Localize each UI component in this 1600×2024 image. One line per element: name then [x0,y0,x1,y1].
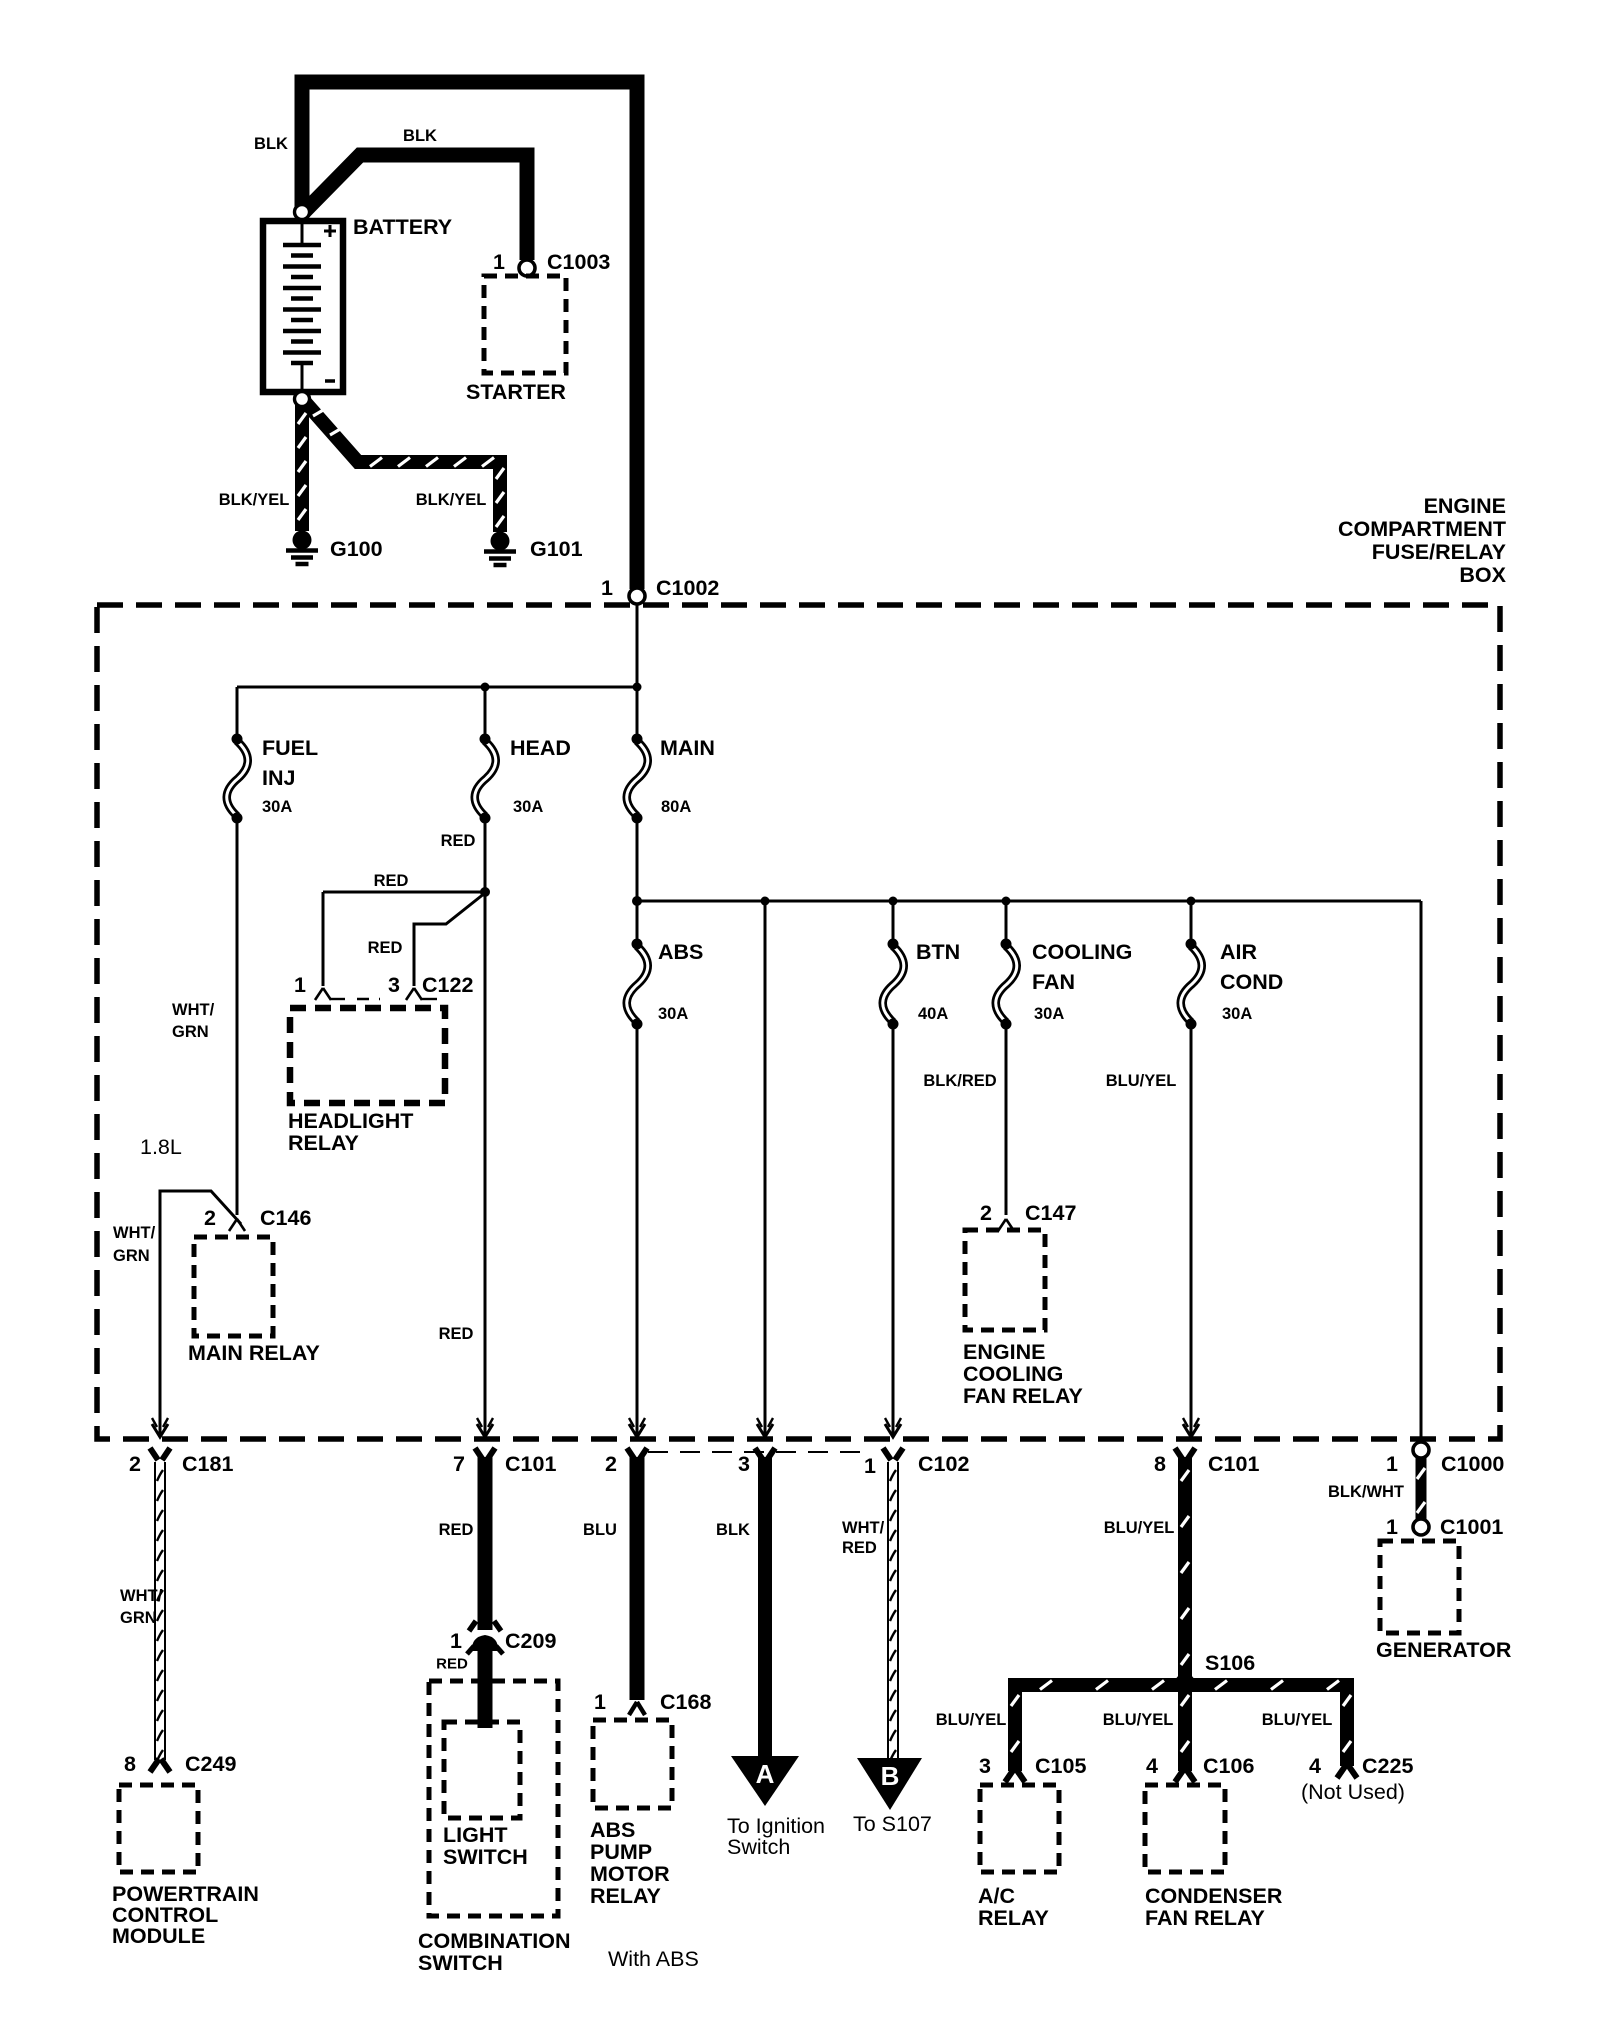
svg-text:WHT/: WHT/ [113,1224,156,1242]
svg-text:1: 1 [294,973,306,997]
svg-text:BLU/YEL: BLU/YEL [1104,1519,1175,1537]
svg-text:BLK: BLK [716,1521,750,1539]
svg-text:SWITCH: SWITCH [443,1845,528,1869]
svg-text:BLU/YEL: BLU/YEL [1103,1711,1174,1729]
svg-text:30A: 30A [262,798,292,816]
svg-text:(Not Used): (Not Used) [1301,1780,1405,1804]
svg-text:RELAY: RELAY [288,1131,359,1155]
svg-text:C101: C101 [505,1452,556,1476]
svg-text:G100: G100 [330,537,383,561]
svg-text:COMPARTMENT: COMPARTMENT [1338,517,1506,541]
svg-text:ENGINE: ENGINE [963,1340,1045,1364]
svg-text:RED: RED [439,1521,474,1539]
svg-text:BLK/WHT: BLK/WHT [1328,1483,1404,1501]
svg-text:RED: RED [368,939,403,957]
svg-text:To S107: To S107 [853,1812,932,1836]
svg-text:4: 4 [1309,1754,1321,1778]
svg-text:RELAY: RELAY [590,1884,661,1908]
svg-text:COOLING: COOLING [1032,940,1132,964]
svg-text:BLK/RED: BLK/RED [923,1072,996,1090]
svg-text:COOLING: COOLING [963,1362,1063,1386]
svg-text:3: 3 [388,973,400,997]
svg-text:MAIN: MAIN [660,736,715,760]
svg-text:GENERATOR: GENERATOR [1376,1638,1512,1662]
svg-text:BLK/YEL: BLK/YEL [416,491,487,509]
svg-text:RELAY: RELAY [978,1906,1049,1930]
svg-text:RED: RED [374,872,409,890]
svg-text:30A: 30A [513,798,543,816]
svg-text:S106: S106 [1205,1651,1255,1675]
svg-text:C1003: C1003 [547,250,610,274]
svg-text:ABS: ABS [658,940,703,964]
svg-text:1: 1 [493,250,505,274]
svg-text:ABS: ABS [590,1818,635,1842]
svg-text:4: 4 [1146,1754,1158,1778]
svg-text:A/C: A/C [978,1884,1015,1908]
svg-text:40A: 40A [918,1005,948,1023]
svg-text:BLK: BLK [403,127,437,145]
svg-text:RED: RED [441,832,476,850]
svg-text:RED: RED [439,1325,474,1343]
svg-text:BLU/YEL: BLU/YEL [1262,1711,1333,1729]
svg-text:C249: C249 [185,1752,236,1776]
svg-text:3: 3 [738,1452,750,1476]
svg-text:A: A [756,1759,775,1789]
svg-text:ENGINE: ENGINE [1424,494,1506,518]
svg-text:1: 1 [594,1690,606,1714]
svg-text:C181: C181 [182,1452,233,1476]
svg-text:GRN: GRN [120,1609,157,1627]
svg-text:80A: 80A [661,798,691,816]
svg-text:FAN RELAY: FAN RELAY [963,1384,1083,1408]
svg-text:BOX: BOX [1459,563,1506,587]
svg-text:HEADLIGHT: HEADLIGHT [288,1109,413,1133]
svg-text:GRN: GRN [113,1247,150,1265]
svg-text:7: 7 [453,1452,465,1476]
svg-text:C1001: C1001 [1440,1515,1503,1539]
svg-text:C105: C105 [1035,1754,1086,1778]
svg-text:1: 1 [1386,1452,1398,1476]
svg-text:BLK/YEL: BLK/YEL [219,491,290,509]
svg-text:With ABS: With ABS [608,1947,699,1971]
svg-text:FAN: FAN [1032,970,1075,994]
svg-text:INJ: INJ [262,766,295,790]
svg-text:FAN RELAY: FAN RELAY [1145,1906,1265,1930]
svg-text:MOTOR: MOTOR [590,1862,670,1886]
svg-text:30A: 30A [1034,1005,1064,1023]
svg-text:HEAD: HEAD [510,736,571,760]
svg-text:1: 1 [601,576,613,600]
svg-text:30A: 30A [658,1005,688,1023]
svg-text:8: 8 [124,1752,136,1776]
svg-text:C225: C225 [1362,1754,1413,1778]
svg-text:30A: 30A [1222,1005,1252,1023]
svg-text:LIGHT: LIGHT [443,1823,508,1847]
svg-text:C209: C209 [505,1629,556,1653]
svg-text:MAIN RELAY: MAIN RELAY [188,1341,320,1365]
svg-text:2: 2 [204,1206,216,1230]
svg-text:Switch: Switch [727,1835,790,1859]
svg-text:BATTERY: BATTERY [353,215,452,239]
svg-text:WHT/: WHT/ [172,1001,215,1019]
svg-text:1: 1 [1386,1515,1398,1539]
svg-text:C1002: C1002 [656,576,719,600]
svg-text:3: 3 [979,1754,991,1778]
svg-text:1.8L: 1.8L [140,1135,182,1159]
svg-text:CONDENSER: CONDENSER [1145,1884,1283,1908]
svg-text:C146: C146 [260,1206,311,1230]
svg-text:C101: C101 [1208,1452,1259,1476]
svg-text:GRN: GRN [172,1023,209,1041]
svg-text:WHT/: WHT/ [842,1519,885,1537]
svg-text:FUSE/RELAY: FUSE/RELAY [1372,540,1506,564]
svg-text:B: B [881,1761,900,1791]
svg-text:PUMP: PUMP [590,1840,652,1864]
svg-text:RED: RED [436,1656,468,1673]
svg-text:STARTER: STARTER [466,380,566,404]
svg-text:C168: C168 [660,1690,711,1714]
svg-text:C122: C122 [422,973,473,997]
svg-text:C147: C147 [1025,1201,1076,1225]
svg-text:WHT/: WHT/ [120,1587,163,1605]
svg-text:MODULE: MODULE [112,1924,205,1948]
svg-text:C106: C106 [1203,1754,1254,1778]
svg-text:2: 2 [980,1201,992,1225]
svg-text:2: 2 [129,1452,141,1476]
svg-text:RED: RED [842,1539,877,1557]
svg-text:BLU/YEL: BLU/YEL [1106,1072,1177,1090]
svg-text:BLK: BLK [254,135,288,153]
svg-text:BLU: BLU [583,1521,617,1539]
svg-text:G101: G101 [530,537,583,561]
svg-text:BTN: BTN [916,940,960,964]
svg-text:1: 1 [450,1629,462,1653]
svg-text:BLU/YEL: BLU/YEL [936,1711,1007,1729]
svg-text:SWITCH: SWITCH [418,1951,503,1975]
svg-text:2: 2 [605,1452,617,1476]
svg-text:1: 1 [864,1454,876,1478]
svg-text:C102: C102 [918,1452,969,1476]
svg-text:COMBINATION: COMBINATION [418,1929,570,1953]
svg-text:COND: COND [1220,970,1283,994]
svg-text:C1000: C1000 [1441,1452,1504,1476]
svg-text:8: 8 [1154,1452,1166,1476]
svg-text:AIR: AIR [1220,940,1258,964]
svg-text:FUEL: FUEL [262,736,318,760]
